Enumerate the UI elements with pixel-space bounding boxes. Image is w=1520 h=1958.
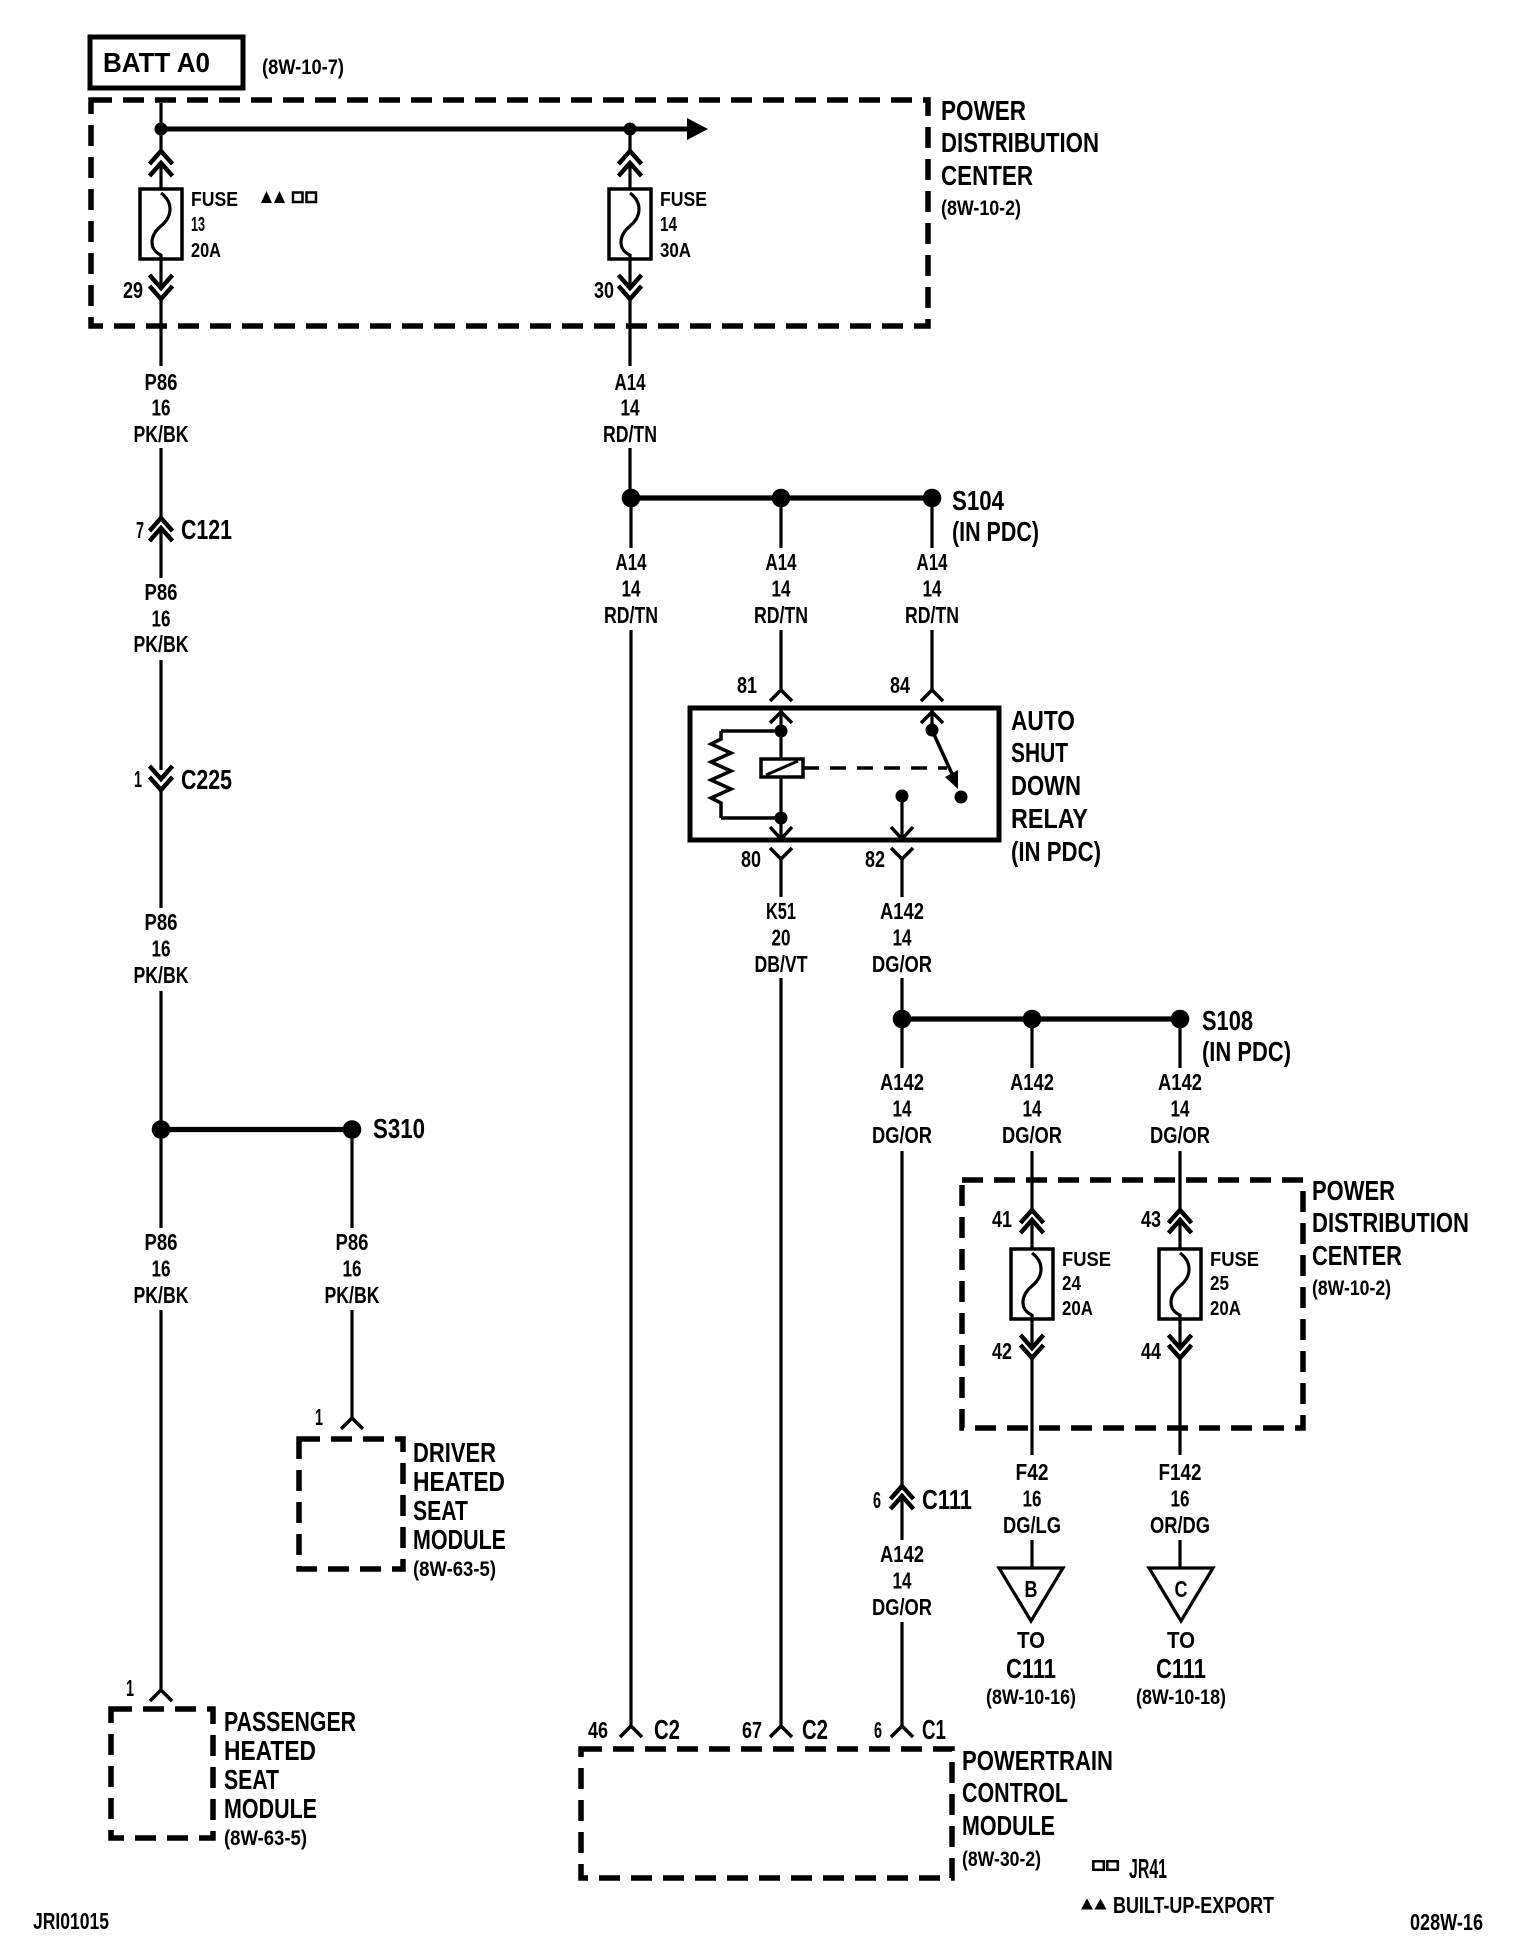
relay switch contact node bbox=[955, 791, 968, 804]
svg-text:TO: TO bbox=[1167, 1627, 1195, 1653]
svg-text:20A: 20A bbox=[1062, 1298, 1093, 1320]
node S310 right bbox=[343, 1120, 362, 1139]
svg-text:K51: K51 bbox=[766, 898, 796, 924]
svg-text:RD/TN: RD/TN bbox=[604, 602, 658, 628]
svg-text:14: 14 bbox=[622, 576, 641, 602]
svg-text:20: 20 bbox=[772, 925, 791, 951]
svg-text:PK/BK: PK/BK bbox=[325, 1282, 380, 1308]
svg-text:SEAT: SEAT bbox=[413, 1495, 468, 1526]
svg-text:30A: 30A bbox=[660, 240, 691, 262]
svg-text:46: 46 bbox=[588, 1717, 608, 1743]
svg-text:(8W-63-5): (8W-63-5) bbox=[224, 1827, 307, 1850]
svg-text:B: B bbox=[1025, 1576, 1038, 1602]
svg-text:C2: C2 bbox=[802, 1714, 828, 1745]
svg-text:JR41: JR41 bbox=[1129, 1853, 1167, 1884]
connector chevrons above fuse 13 bbox=[159, 129, 162, 151]
auto shut down relay box bbox=[690, 708, 999, 840]
svg-text:DG/OR: DG/OR bbox=[872, 951, 932, 977]
wire P86 segment below C225 bbox=[159, 790, 162, 908]
svg-text:(8W-63-5): (8W-63-5) bbox=[413, 1558, 496, 1581]
svg-text:POWER: POWER bbox=[1312, 1175, 1395, 1206]
svg-text:16: 16 bbox=[152, 1256, 171, 1282]
svg-text:DG/OR: DG/OR bbox=[872, 1594, 932, 1620]
svg-text:CENTER: CENTER bbox=[1312, 1240, 1402, 1271]
wire P86 segment to C121 bbox=[159, 448, 162, 518]
svg-text:PASSENGER: PASSENGER bbox=[224, 1706, 356, 1737]
svg-text:P86: P86 bbox=[145, 369, 178, 395]
svg-text:A14: A14 bbox=[615, 369, 646, 395]
node fuse13 tap bbox=[155, 123, 168, 136]
svg-text:16: 16 bbox=[152, 936, 171, 962]
relay coil bottom node bbox=[775, 812, 788, 825]
svg-text:S310: S310 bbox=[373, 1113, 425, 1144]
svg-text:20A: 20A bbox=[191, 240, 221, 262]
wire P86 to passenger module bbox=[159, 1130, 162, 1228]
svg-text:FUSE: FUSE bbox=[1210, 1249, 1259, 1271]
node S108 mid bbox=[1023, 1010, 1042, 1029]
svg-text:82: 82 bbox=[865, 846, 885, 872]
wire P86 segment to C225 bbox=[159, 660, 162, 770]
off-page connector C bbox=[1149, 1568, 1213, 1621]
node S108 left bbox=[893, 1010, 912, 1029]
svg-text:1: 1 bbox=[134, 766, 142, 792]
svg-text:41: 41 bbox=[992, 1206, 1012, 1232]
svg-text:A14: A14 bbox=[766, 549, 797, 575]
svg-text:(IN PDC): (IN PDC) bbox=[1011, 836, 1101, 867]
svg-text:P86: P86 bbox=[145, 909, 178, 935]
svg-text:A142: A142 bbox=[1010, 1069, 1054, 1095]
svg-text:CENTER: CENTER bbox=[941, 160, 1033, 191]
svg-text:MODULE: MODULE bbox=[962, 1810, 1055, 1841]
svg-text:POWERTRAIN: POWERTRAIN bbox=[962, 1745, 1113, 1776]
svg-text:81: 81 bbox=[737, 672, 757, 698]
splice S310 bus bbox=[161, 1127, 352, 1132]
svg-text:44: 44 bbox=[1141, 1338, 1161, 1364]
power distribution center box (top) bbox=[91, 100, 928, 326]
wire A14 long run to PCM pin 46 bbox=[629, 630, 632, 1726]
svg-text:14: 14 bbox=[1171, 1096, 1190, 1122]
relay pin 82 terminal bbox=[896, 790, 909, 803]
svg-text:BATT A0: BATT A0 bbox=[103, 47, 210, 78]
svg-text:PK/BK: PK/BK bbox=[134, 631, 189, 657]
wire A142 into PDC fuse 25 bbox=[1178, 1151, 1181, 1210]
wire A142 to connector C111 bbox=[900, 1151, 903, 1486]
svg-text:MODULE: MODULE bbox=[224, 1793, 317, 1824]
svg-text:14: 14 bbox=[1023, 1096, 1042, 1122]
svg-text:DG/OR: DG/OR bbox=[1150, 1122, 1210, 1148]
svg-text:MODULE: MODULE bbox=[413, 1524, 506, 1555]
fuse F13 20A bbox=[140, 189, 182, 259]
svg-text:6: 6 bbox=[874, 1717, 882, 1743]
fuse F24 20A body bbox=[1011, 1249, 1053, 1319]
svg-text:FUSE: FUSE bbox=[1062, 1249, 1111, 1271]
wire A142 into PDC fuse 24 bbox=[1030, 1151, 1033, 1210]
node S104 right bbox=[923, 489, 942, 508]
wire A142 below C111 bbox=[900, 1496, 903, 1540]
svg-text:JRI01015: JRI01015 bbox=[33, 1908, 109, 1934]
svg-text:(IN PDC): (IN PDC) bbox=[1202, 1036, 1291, 1067]
legend BUILT-UP-EXPORT bbox=[1081, 1899, 1093, 1910]
svg-text:(8W-10-2): (8W-10-2) bbox=[1312, 1277, 1391, 1300]
connector chevrons above fuse 14 bbox=[628, 129, 631, 151]
svg-text:OR/DG: OR/DG bbox=[1150, 1512, 1210, 1538]
svg-text:67: 67 bbox=[742, 1717, 762, 1743]
wire P86 to driver module bbox=[350, 1130, 353, 1228]
bus arrowhead bbox=[687, 118, 708, 140]
svg-text:DOWN: DOWN bbox=[1011, 770, 1081, 801]
svg-text:(8W-10-18): (8W-10-18) bbox=[1136, 1686, 1226, 1709]
svg-text:20A: 20A bbox=[1210, 1298, 1241, 1320]
relay coil top node bbox=[775, 725, 788, 738]
svg-text:SEAT: SEAT bbox=[224, 1764, 279, 1795]
svg-text:16: 16 bbox=[152, 395, 171, 421]
svg-text:A14: A14 bbox=[616, 549, 647, 575]
svg-text:HEATED: HEATED bbox=[224, 1735, 316, 1766]
svg-text:29: 29 bbox=[123, 277, 143, 303]
svg-text:DG/LG: DG/LG bbox=[1003, 1512, 1061, 1538]
svg-text:14: 14 bbox=[893, 1096, 912, 1122]
splice S108 bus bbox=[902, 1016, 1180, 1021]
svg-text:(IN PDC): (IN PDC) bbox=[952, 516, 1039, 547]
node S104 mid bbox=[772, 489, 791, 508]
svg-text:FUSE: FUSE bbox=[660, 189, 707, 211]
wire A14 to splice S104 bbox=[628, 448, 631, 498]
node S104 left bbox=[622, 489, 641, 508]
svg-text:PK/BK: PK/BK bbox=[134, 962, 189, 988]
svg-text:DG/OR: DG/OR bbox=[872, 1122, 932, 1148]
battery bus wire bbox=[161, 127, 687, 132]
svg-text:(8W-10-16): (8W-10-16) bbox=[986, 1686, 1076, 1709]
svg-text:1: 1 bbox=[315, 1404, 323, 1430]
svg-text:16: 16 bbox=[1171, 1486, 1190, 1512]
svg-text:13: 13 bbox=[191, 214, 205, 236]
svg-text:S108: S108 bbox=[1202, 1005, 1253, 1036]
svg-text:14: 14 bbox=[772, 576, 791, 602]
svg-text:25: 25 bbox=[1210, 1273, 1229, 1295]
wire A14 to relay pin 84 bbox=[930, 630, 933, 690]
svg-text:DISTRIBUTION: DISTRIBUTION bbox=[1312, 1207, 1469, 1238]
svg-text:7: 7 bbox=[136, 517, 144, 543]
svg-text:P86: P86 bbox=[145, 1229, 178, 1255]
passenger heated seat module box bbox=[111, 1709, 213, 1838]
relay coil winding bbox=[779, 731, 782, 818]
svg-text:14: 14 bbox=[893, 1568, 912, 1594]
svg-text:S104: S104 bbox=[952, 485, 1004, 516]
svg-text:C121: C121 bbox=[181, 514, 232, 545]
node S108 right bbox=[1171, 1010, 1190, 1029]
svg-text:FUSE: FUSE bbox=[191, 189, 238, 211]
svg-text:DRIVER: DRIVER bbox=[413, 1437, 496, 1468]
svg-text:C: C bbox=[1175, 1576, 1188, 1602]
svg-text:16: 16 bbox=[1023, 1486, 1042, 1512]
wire P86 segment to splice S310 bbox=[159, 991, 162, 1129]
relay switch arm bbox=[932, 730, 953, 776]
svg-text:30: 30 bbox=[594, 277, 614, 303]
battery feed stub from BATT A0 bbox=[159, 103, 162, 129]
svg-text:DG/OR: DG/OR bbox=[1002, 1122, 1062, 1148]
relay pin 80 exit chevron bbox=[779, 818, 782, 840]
variant symbols (two triangles, two squares) bbox=[261, 191, 272, 203]
wire A142 to splice S108 bbox=[900, 978, 903, 1019]
svg-text:028W-16: 028W-16 bbox=[1410, 1909, 1483, 1935]
svg-text:(8W-30-2): (8W-30-2) bbox=[962, 1848, 1041, 1871]
svg-text:A142: A142 bbox=[1158, 1069, 1202, 1095]
svg-text:C111: C111 bbox=[1156, 1653, 1206, 1684]
svg-text:RELAY: RELAY bbox=[1011, 803, 1088, 834]
fuse F14 30A bbox=[609, 189, 651, 259]
powertrain control module box bbox=[581, 1749, 952, 1878]
svg-text:43: 43 bbox=[1141, 1206, 1161, 1232]
node fuse14 tap bbox=[624, 123, 637, 136]
svg-text:C225: C225 bbox=[181, 764, 232, 795]
relay pin 81 male chevron bbox=[779, 708, 782, 731]
wire A14 to relay pin 81 bbox=[779, 630, 782, 690]
relay switch pivot node bbox=[926, 724, 939, 737]
off-page connector B bbox=[999, 1568, 1063, 1621]
svg-text:RD/TN: RD/TN bbox=[905, 602, 959, 628]
wire K51 long run to PCM pin 67 bbox=[779, 978, 782, 1726]
svg-text:HEATED: HEATED bbox=[413, 1466, 505, 1497]
svg-text:C2: C2 bbox=[654, 1714, 680, 1745]
fuse F25 20A body bbox=[1159, 1249, 1201, 1319]
battery feed label box BATT A0 bbox=[90, 37, 243, 88]
svg-text:P86: P86 bbox=[336, 1229, 369, 1255]
svg-text:C111: C111 bbox=[922, 1484, 972, 1515]
svg-text:6: 6 bbox=[873, 1487, 881, 1513]
svg-text:DB/VT: DB/VT bbox=[755, 951, 808, 977]
svg-text:16: 16 bbox=[343, 1256, 362, 1282]
svg-text:PK/BK: PK/BK bbox=[134, 421, 189, 447]
svg-text:POWER: POWER bbox=[941, 95, 1026, 126]
svg-text:16: 16 bbox=[152, 606, 171, 632]
svg-text:14: 14 bbox=[660, 214, 678, 236]
svg-text:A142: A142 bbox=[880, 1541, 924, 1567]
svg-text:TO: TO bbox=[1017, 1627, 1045, 1653]
svg-text:F142: F142 bbox=[1159, 1459, 1202, 1485]
svg-text:(8W-10-7): (8W-10-7) bbox=[262, 56, 344, 79]
svg-text:A142: A142 bbox=[880, 1069, 924, 1095]
node S310 left bbox=[152, 1120, 171, 1139]
svg-text:14: 14 bbox=[621, 395, 640, 421]
svg-text:42: 42 bbox=[992, 1338, 1012, 1364]
driver heated seat module box bbox=[299, 1439, 403, 1569]
splice S104 bus bbox=[631, 495, 932, 500]
svg-text:A14: A14 bbox=[917, 549, 948, 575]
svg-text:RD/TN: RD/TN bbox=[603, 421, 657, 447]
svg-text:AUTO: AUTO bbox=[1011, 705, 1075, 736]
svg-text:DISTRIBUTION: DISTRIBUTION bbox=[941, 127, 1099, 158]
svg-text:1: 1 bbox=[126, 1675, 134, 1701]
svg-text:P86: P86 bbox=[145, 579, 178, 605]
svg-text:A142: A142 bbox=[880, 898, 924, 924]
svg-text:(8W-10-2): (8W-10-2) bbox=[941, 197, 1021, 220]
svg-text:RD/TN: RD/TN bbox=[754, 602, 808, 628]
svg-text:BUILT-UP-EXPORT: BUILT-UP-EXPORT bbox=[1113, 1892, 1274, 1918]
svg-text:PK/BK: PK/BK bbox=[134, 1282, 189, 1308]
svg-text:14: 14 bbox=[923, 576, 942, 602]
svg-text:84: 84 bbox=[890, 672, 910, 698]
relay actuating dashed link bbox=[803, 766, 947, 770]
svg-text:80: 80 bbox=[741, 846, 761, 872]
svg-text:CONTROL: CONTROL bbox=[962, 1777, 1068, 1808]
svg-text:SHUT: SHUT bbox=[1011, 737, 1068, 768]
relay pin 84 male chevron bbox=[930, 708, 933, 730]
svg-text:14: 14 bbox=[893, 925, 912, 951]
wire P86 segment below C121 bbox=[159, 528, 162, 578]
svg-text:F42: F42 bbox=[1016, 1459, 1049, 1485]
svg-text:C1: C1 bbox=[922, 1714, 946, 1745]
svg-text:24: 24 bbox=[1062, 1273, 1082, 1295]
svg-text:C111: C111 bbox=[1006, 1653, 1056, 1684]
legend JR41 bbox=[1093, 1861, 1104, 1870]
relay coil resistor bbox=[721, 729, 781, 733]
power distribution center box (lower) bbox=[962, 1180, 1303, 1428]
